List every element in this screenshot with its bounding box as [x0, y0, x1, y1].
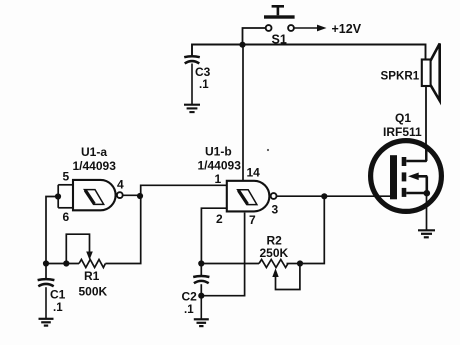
schmitt glyph U1-a [84, 190, 103, 205]
svg-text:5: 5 [63, 170, 70, 184]
svg-text:SPKR1: SPKR1 [381, 70, 420, 83]
svg-text:1/44093: 1/44093 [73, 159, 117, 173]
ground below C3 [184, 105, 200, 112]
svg-text:Q1: Q1 [395, 111, 411, 125]
wire feedback down to R2 [300, 196, 324, 263]
wire C2 node to R2 [201, 263, 259, 265]
arrow R2 wiper [272, 268, 278, 277]
svg-text:6: 6 [63, 210, 70, 224]
svg-text:R1: R1 [84, 269, 100, 283]
wire top supply rail [192, 45, 426, 60]
svg-text:IRF511: IRF511 [383, 125, 422, 139]
svg-text:+12V: +12V [332, 22, 362, 36]
svg-text:500K: 500K [79, 285, 108, 299]
svg-text:.1: .1 [53, 302, 63, 314]
svg-text:4: 4 [117, 178, 124, 192]
node U1-a input [55, 193, 61, 199]
resistor R1 [79, 260, 105, 268]
svg-text:S1: S1 [272, 33, 287, 47]
svg-text:250K: 250K [260, 246, 289, 260]
wire R1 wiper loop [66, 234, 89, 263]
wire U1-a output lead [123, 194, 141, 196]
wire Q1 source to ground [426, 193, 428, 230]
capacitor C3 [184, 56, 200, 63]
svg-text:C1: C1 [50, 287, 66, 301]
schmitt glyph U1-b [238, 190, 257, 205]
wire pin 2 lead [201, 208, 226, 263]
wire U1-b pin 14 lead [242, 45, 244, 182]
wire U1-b output to gate [276, 195, 390, 197]
scan speck artifact [267, 149, 269, 151]
wire R2 right lead [287, 263, 301, 265]
node rail junction [239, 42, 245, 48]
svg-text:14: 14 [247, 166, 261, 180]
pin 6 stub [58, 207, 73, 209]
svg-text:C3: C3 [195, 65, 211, 79]
node C2 top [198, 260, 204, 266]
svg-text:3: 3 [272, 203, 279, 217]
node R2 right [297, 260, 303, 266]
wire C3 bottom lead [191, 64, 193, 105]
svg-text:U1-b: U1-b [205, 145, 232, 159]
wire C1 top lead [45, 264, 47, 280]
svg-text:.1: .1 [184, 304, 194, 316]
svg-text:.1: .1 [199, 79, 209, 91]
ground below C2 [194, 319, 209, 326]
bubble U1-a output [117, 192, 123, 198]
arrow R1 wiper [86, 252, 93, 261]
wire output jog to pin 1 [141, 185, 227, 196]
node R1/C1 [43, 260, 49, 266]
wire speaker to Q1 drain [425, 86, 427, 163]
bubble U1-b output [271, 193, 277, 199]
wire R2 wiper loop [276, 264, 300, 290]
node R1 wiper tap [63, 260, 69, 266]
wire R1 left lead [46, 263, 79, 265]
NAND gate U1-a [73, 180, 116, 210]
wire C1 bottom lead [45, 287, 47, 318]
ground below C1 [39, 319, 54, 326]
wire C2 ground lead [200, 296, 202, 319]
capacitor C2 [193, 276, 209, 283]
wire input connector U1-a [57, 185, 59, 208]
node C2 bottom [198, 293, 204, 299]
wire pin 7 lead [201, 213, 244, 296]
pin 5 stub [58, 184, 73, 186]
wire input node down [46, 197, 58, 264]
wire S1 left lead [243, 28, 266, 45]
transistor Q1 [371, 141, 442, 212]
svg-text:2: 2 [216, 212, 223, 226]
capacitor C1 [38, 279, 55, 286]
speaker SPKR1 [422, 44, 440, 101]
node U1-b output [321, 193, 327, 199]
svg-text:7: 7 [249, 213, 256, 227]
wire C2 top lead [200, 264, 202, 276]
svg-text:1/44093: 1/44093 [198, 159, 242, 173]
svg-text:1: 1 [215, 172, 222, 186]
pushbutton S1 [264, 5, 295, 31]
wire arrow to +12V [294, 25, 327, 32]
ground below Q1 [418, 230, 435, 237]
svg-text:U1-a: U1-a [81, 145, 107, 159]
wire Q1 drain internal [425, 145, 427, 161]
NAND gate U1-b [227, 181, 270, 212]
node U1-a output [137, 193, 143, 199]
resistor R2 [259, 260, 288, 268]
svg-text:C2: C2 [182, 290, 198, 304]
wire output down to R1 [105, 196, 140, 264]
wire C2 bottom lead [200, 284, 202, 296]
